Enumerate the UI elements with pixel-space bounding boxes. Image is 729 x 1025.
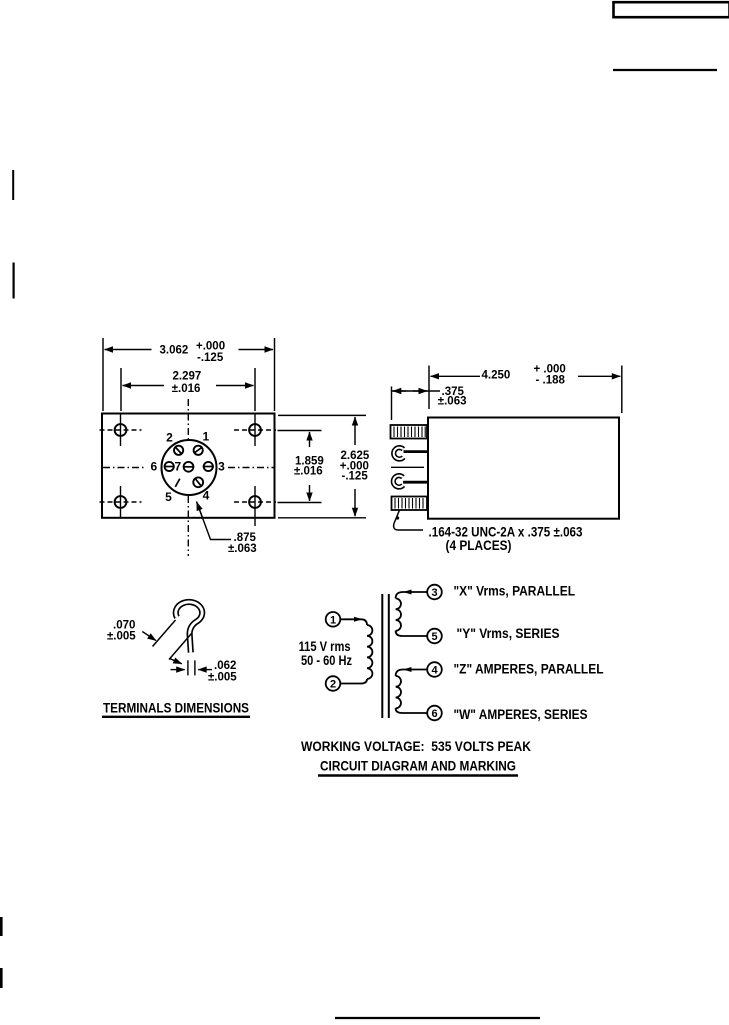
svg-text:5: 5 bbox=[165, 490, 172, 504]
svg-text:CIRCUIT DIAGRAM AND MARKING: CIRCUIT DIAGRAM AND MARKING bbox=[320, 759, 516, 774]
svg-text:±.063: ±.063 bbox=[228, 543, 257, 555]
svg-text:-.125: -.125 bbox=[342, 471, 369, 483]
svg-text:WORKING VOLTAGE: 535 VOLTS PE: WORKING VOLTAGE: 535 VOLTS PEAK bbox=[301, 739, 531, 754]
svg-text:.062: .062 bbox=[214, 660, 236, 672]
svg-text:2: 2 bbox=[330, 679, 336, 691]
svg-text:3: 3 bbox=[431, 587, 437, 599]
svg-text:3.062: 3.062 bbox=[160, 345, 189, 357]
svg-text:±.063: ±.063 bbox=[438, 396, 467, 408]
svg-text:"Z" AMPERES, PARALLEL: "Z" AMPERES, PARALLEL bbox=[454, 662, 604, 677]
svg-text:1: 1 bbox=[202, 430, 209, 444]
svg-text:50 - 60 Hz: 50 - 60 Hz bbox=[301, 653, 352, 668]
svg-text:±.005: ±.005 bbox=[208, 672, 237, 684]
svg-text:"Y" Vrms, SERIES: "Y" Vrms, SERIES bbox=[457, 626, 560, 641]
svg-text:4: 4 bbox=[431, 665, 438, 677]
svg-text:5: 5 bbox=[431, 631, 437, 643]
svg-text:+.000: +.000 bbox=[196, 341, 225, 353]
svg-text:"W" AMPERES, SERIES: "W" AMPERES, SERIES bbox=[454, 707, 588, 722]
svg-text:4.250: 4.250 bbox=[482, 370, 511, 382]
svg-text:-.125: -.125 bbox=[197, 352, 224, 364]
svg-text:6: 6 bbox=[431, 708, 437, 720]
svg-text:- .188: - .188 bbox=[536, 375, 566, 387]
svg-text:115 V rms: 115 V rms bbox=[299, 639, 351, 654]
svg-text:±.016: ±.016 bbox=[294, 466, 323, 478]
svg-text:3: 3 bbox=[218, 459, 225, 473]
svg-text:7: 7 bbox=[175, 460, 182, 474]
svg-text:1: 1 bbox=[330, 614, 336, 626]
svg-text:+ .000: + .000 bbox=[534, 364, 566, 376]
svg-text:"X" Vrms, PARALLEL: "X" Vrms, PARALLEL bbox=[454, 583, 576, 598]
svg-text:TERMINALS DIMENSIONS: TERMINALS DIMENSIONS bbox=[103, 700, 249, 715]
svg-text:(4 PLACES): (4 PLACES) bbox=[446, 538, 512, 553]
svg-text:±.005: ±.005 bbox=[107, 631, 136, 643]
svg-text:2: 2 bbox=[166, 431, 173, 445]
svg-text:6: 6 bbox=[150, 459, 157, 473]
svg-text:±.016: ±.016 bbox=[172, 383, 201, 395]
svg-text:2.297: 2.297 bbox=[173, 371, 202, 383]
svg-text:4: 4 bbox=[203, 489, 210, 503]
